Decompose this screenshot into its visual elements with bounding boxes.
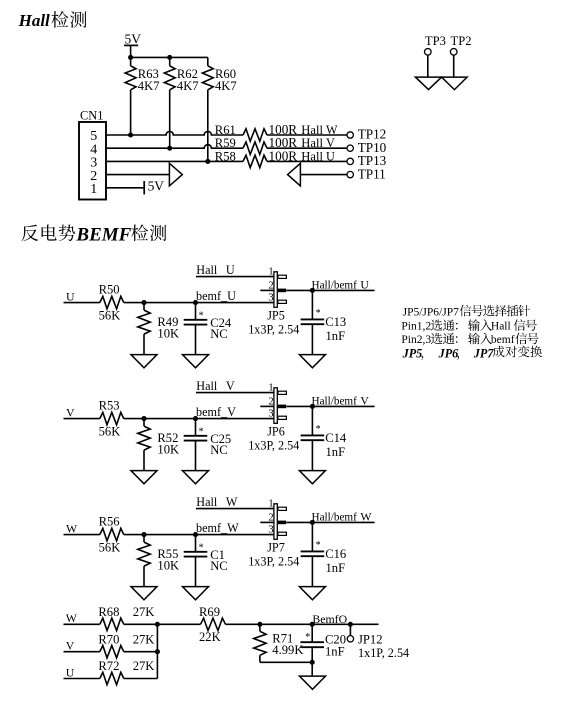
svg-text:V: V xyxy=(66,639,75,653)
svg-text:3: 3 xyxy=(268,293,273,304)
svg-text:10K: 10K xyxy=(157,327,179,341)
svg-text:1nF: 1nF xyxy=(326,329,346,343)
svg-text:*: * xyxy=(316,540,321,551)
svg-text:22K: 22K xyxy=(199,630,221,644)
svg-text:JP5/JP6/JP7: JP5/JP6/JP7 xyxy=(403,306,460,318)
svg-text:Hall: Hall xyxy=(301,136,323,150)
svg-text:W: W xyxy=(66,522,78,536)
svg-text:56K: 56K xyxy=(99,541,121,555)
svg-text:JP6: JP6 xyxy=(438,346,460,360)
svg-text:R53: R53 xyxy=(99,398,120,412)
svg-text:C16: C16 xyxy=(325,547,346,561)
svg-text:JP6: JP6 xyxy=(267,424,285,438)
svg-text:*: * xyxy=(199,310,204,321)
svg-text:Pin2,3: Pin2,3 xyxy=(401,334,431,346)
svg-text:bemf_V: bemf_V xyxy=(196,405,236,419)
svg-text:Hall/bemf: Hall/bemf xyxy=(312,396,358,408)
svg-text:Hall: Hall xyxy=(301,123,323,137)
svg-text:5V: 5V xyxy=(148,179,165,194)
svg-text:Hall: Hall xyxy=(491,321,511,333)
svg-text:NC: NC xyxy=(210,443,228,457)
svg-text:100R: 100R xyxy=(269,148,298,163)
svg-text:W: W xyxy=(326,123,338,137)
svg-text:R61: R61 xyxy=(215,123,236,137)
svg-text:JP7: JP7 xyxy=(473,346,495,360)
svg-text:R68: R68 xyxy=(98,605,119,619)
svg-text:bemf_U: bemf_U xyxy=(196,289,236,303)
svg-text:R69: R69 xyxy=(199,605,220,619)
svg-text:1: 1 xyxy=(268,267,273,278)
svg-text:C13: C13 xyxy=(325,315,346,329)
svg-text:Hall: Hall xyxy=(196,379,218,393)
svg-text:V: V xyxy=(326,136,335,150)
svg-text:TP2: TP2 xyxy=(451,34,472,48)
svg-text:4.99K: 4.99K xyxy=(272,643,303,657)
svg-text:27K: 27K xyxy=(133,659,155,673)
svg-text:1: 1 xyxy=(268,383,273,394)
svg-text:R56: R56 xyxy=(99,514,120,528)
svg-text:1: 1 xyxy=(90,182,97,197)
svg-text:JP5: JP5 xyxy=(402,346,423,360)
svg-text:1nF: 1nF xyxy=(325,644,345,658)
svg-text:3: 3 xyxy=(268,525,273,536)
svg-text:R70: R70 xyxy=(98,632,119,646)
svg-text:1nF: 1nF xyxy=(326,561,346,575)
svg-text:R59: R59 xyxy=(215,136,236,150)
svg-text:*: * xyxy=(199,542,204,553)
svg-text:TP11: TP11 xyxy=(358,166,386,181)
svg-text:27K: 27K xyxy=(133,605,155,619)
svg-text:bemf: bemf xyxy=(491,334,515,346)
svg-text:V: V xyxy=(66,406,75,420)
svg-text:3: 3 xyxy=(268,409,273,420)
svg-text:BemfO: BemfO xyxy=(312,612,347,626)
svg-text:56K: 56K xyxy=(99,309,121,323)
svg-text:W: W xyxy=(360,510,372,524)
svg-text:2: 2 xyxy=(268,280,273,291)
svg-text:1x3P, 2.54: 1x3P, 2.54 xyxy=(248,438,299,452)
svg-text:27K: 27K xyxy=(133,632,155,646)
svg-text:TP3: TP3 xyxy=(425,34,446,48)
svg-text:W: W xyxy=(226,495,238,509)
svg-text:JP7: JP7 xyxy=(267,540,285,554)
svg-text:*: * xyxy=(305,632,310,643)
svg-text:1x1P, 2.54: 1x1P, 2.54 xyxy=(358,646,409,660)
svg-text:2: 2 xyxy=(268,512,273,523)
svg-text:Hall/bemf: Hall/bemf xyxy=(312,512,358,524)
svg-text:1: 1 xyxy=(268,499,273,510)
svg-text:Hall: Hall xyxy=(196,263,218,277)
svg-text:*: * xyxy=(316,424,321,435)
svg-text:R58: R58 xyxy=(215,149,236,163)
svg-text:R72: R72 xyxy=(98,659,119,673)
svg-text:R50: R50 xyxy=(99,282,120,296)
svg-text:4K7: 4K7 xyxy=(177,79,199,93)
svg-text:CN1: CN1 xyxy=(80,108,103,122)
svg-text:10K: 10K xyxy=(157,443,179,457)
svg-text:U: U xyxy=(66,665,75,679)
svg-text:bemf_W: bemf_W xyxy=(196,521,239,535)
svg-text:U: U xyxy=(226,263,235,277)
svg-text:C14: C14 xyxy=(325,431,347,445)
svg-text:NC: NC xyxy=(210,559,228,573)
svg-text:1x3P, 2.54: 1x3P, 2.54 xyxy=(248,322,299,336)
svg-text:Hall: Hall xyxy=(18,11,50,30)
svg-text:V: V xyxy=(360,394,369,408)
svg-text:U: U xyxy=(360,278,369,292)
svg-text:V: V xyxy=(226,379,235,393)
svg-text:Hall/bemf: Hall/bemf xyxy=(312,280,358,292)
svg-text:1nF: 1nF xyxy=(326,445,346,459)
svg-text:56K: 56K xyxy=(99,425,121,439)
svg-text:U: U xyxy=(326,149,335,163)
svg-text:1x3P, 2.54: 1x3P, 2.54 xyxy=(248,554,299,568)
svg-text:*: * xyxy=(199,426,204,437)
svg-text:JP5: JP5 xyxy=(267,308,285,322)
svg-text:BEMF: BEMF xyxy=(75,224,131,245)
svg-text:10K: 10K xyxy=(157,559,179,573)
svg-text:NC: NC xyxy=(210,327,228,341)
svg-text:5V: 5V xyxy=(125,32,142,47)
svg-text:4K7: 4K7 xyxy=(138,79,160,93)
svg-text:2: 2 xyxy=(268,396,273,407)
svg-text:JP12: JP12 xyxy=(358,633,383,647)
svg-text:W: W xyxy=(66,611,78,625)
svg-text:*: * xyxy=(316,308,321,319)
svg-text:Pin1,2: Pin1,2 xyxy=(401,321,431,333)
svg-text:Hall: Hall xyxy=(196,495,218,509)
svg-text:4K7: 4K7 xyxy=(215,79,237,93)
svg-text:U: U xyxy=(66,290,75,304)
svg-text:Hall: Hall xyxy=(301,149,323,163)
